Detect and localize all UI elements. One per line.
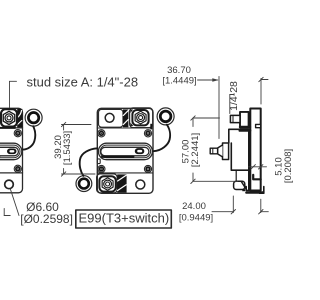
- bottom lever foot side view: [234, 170, 247, 191]
- hatch strip A front view: [123, 109, 128, 127]
- dim 36.70 arrow: [212, 78, 219, 82]
- plate upper notch: [256, 124, 261, 127]
- hex nut top-right front view: [132, 110, 148, 125]
- svg-text:stud size A: 1/4"-28: stud size A: 1/4"-28: [27, 74, 139, 89]
- body section line lower: [0, 172, 23, 174]
- terminal cap ring left view: [25, 109, 42, 126]
- body section line upper front: [97, 127, 153, 129]
- body outline front view: [97, 108, 153, 193]
- corner accent near nut tab: [130, 110, 133, 114]
- heavy tab bottom line left view: [0, 127, 15, 129]
- bottom-right circle front view: [136, 180, 145, 189]
- dim 36.70 line and extensions: [198, 79, 218, 81]
- body section line upper: [0, 127, 23, 129]
- cap lanyard left view: [23, 126, 35, 149]
- mounting plate side view: [246, 109, 264, 194]
- mounting hole (Ø6.60) left view: [5, 180, 14, 189]
- leader 1/4-28: [229, 95, 231, 114]
- svg-text:[1.4449]: [1.4449]: [162, 76, 196, 87]
- screw bottom-right front: [144, 165, 151, 172]
- dim 57.00 extensions: [193, 117, 220, 119]
- lever indicator pill front view: [135, 148, 145, 154]
- svg-text:36.70: 36.70: [167, 65, 191, 76]
- cap lanyard bottom-left front: [80, 148, 98, 176]
- screw top-left front: [98, 130, 105, 137]
- stud terminal stack side view: [230, 112, 250, 128]
- hex nut bottom-left front view: [99, 176, 115, 191]
- body outline left view: [0, 108, 23, 193]
- lever indicator pill left view: [7, 149, 17, 155]
- svg-text:[0.2008]: [0.2008]: [283, 149, 294, 183]
- leader hole Ø6.60: [10, 189, 19, 215]
- plate lower notch: [253, 175, 261, 180]
- svg-text:[2.2441]: [2.2441]: [190, 133, 201, 167]
- svg-text:[1.5433]: [1.5433]: [62, 131, 73, 165]
- hatch strip B front view: [117, 174, 126, 192]
- cut-off mark bottom left: [3, 209, 5, 216]
- dim 24.00: [212, 211, 233, 213]
- dim 5.10: [249, 166, 267, 168]
- hatch strip left view: [17, 109, 22, 128]
- breaker body side view: [229, 129, 251, 190]
- dim 39.20 extensions: [62, 124, 92, 126]
- screw bottom left view: [14, 165, 21, 172]
- stud nut left view: [1, 109, 17, 126]
- part label box E99: [76, 210, 172, 228]
- tab circle front view: [105, 113, 114, 122]
- plate bottom foot: [246, 187, 264, 194]
- cap lanyard top-right front: [153, 125, 170, 152]
- screw top-right front: [144, 130, 151, 137]
- terminal cap ring top-right front: [157, 108, 174, 125]
- bottom-left stud tab front view: [97, 174, 118, 193]
- leader stud size callout: [9, 81, 11, 107]
- terminal cap ring bottom-left front: [76, 176, 92, 192]
- svg-text:[0.9449]: [0.9449]: [179, 213, 213, 224]
- slot shadow line front view: [102, 155, 133, 157]
- top-left tab front view: [99, 109, 124, 127]
- screw bottom-left front: [98, 165, 105, 172]
- screw top left view: [14, 130, 21, 137]
- lever boss stadium front view: [98, 143, 152, 160]
- small left notch below stadium: [97, 159, 100, 164]
- reset button side view: [210, 143, 228, 160]
- lever boss stadium left view: [0, 143, 22, 160]
- svg-text:1/4-28: 1/4-28: [228, 81, 240, 111]
- svg-text:24.00: 24.00: [182, 201, 206, 212]
- svg-text:[Ø0.2598]: [Ø0.2598]: [20, 212, 73, 226]
- top-right stud tab front view: [130, 108, 153, 128]
- body section line lower front: [97, 172, 153, 174]
- svg-text:E99(T3+switch): E99(T3+switch): [79, 211, 170, 226]
